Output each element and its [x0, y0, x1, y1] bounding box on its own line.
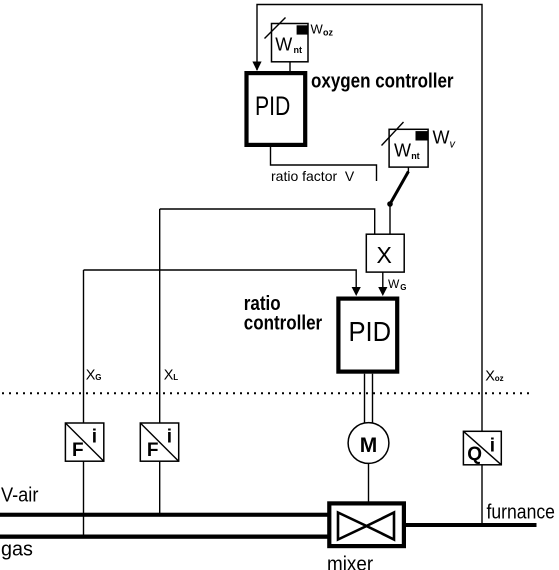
label Woz	[311, 22, 334, 38]
wire: left vertical XG line down to gas pipe	[83, 270, 85, 538]
svg-text:i: i	[490, 435, 495, 456]
wire: switch to multiplier X	[389, 204, 391, 234]
mixer valve body	[329, 503, 404, 546]
svg-text:i: i	[167, 427, 172, 448]
svg-text:W: W	[275, 35, 292, 55]
svg-text:nt: nt	[294, 45, 303, 55]
analyzer transmitter Q (oxygen)	[463, 431, 501, 465]
multiplier X	[366, 234, 404, 272]
svg-text:mixer: mixer	[327, 553, 374, 570]
setpoint station W1 (Wnt with Woz)	[265, 18, 309, 62]
svg-text:oz: oz	[495, 374, 504, 383]
label XG	[86, 367, 102, 383]
svg-text:W: W	[394, 141, 411, 161]
wire: PID2 to motor double line left	[364, 374, 366, 423]
wire: XL measurement to multiplier X	[160, 209, 375, 234]
svg-text:X: X	[377, 242, 392, 268]
setpoint station W2 (Wnt with Wv)	[382, 122, 429, 167]
wire: W1 setpoint box to PID1	[289, 62, 291, 71]
wire: motor to mixer valve	[368, 464, 370, 504]
label Wv	[433, 128, 457, 151]
svg-text:ratio factor V: ratio factor V	[271, 168, 355, 184]
svg-text:nt: nt	[411, 151, 420, 161]
svg-text:oxygen controller: oxygen controller	[311, 69, 454, 92]
pipe: gas supply	[0, 535, 328, 539]
svg-text:PID: PID	[349, 316, 392, 347]
wire: PID1 output ratio factor line	[271, 147, 377, 181]
label Xoz	[485, 368, 503, 384]
svg-text:i: i	[92, 427, 97, 448]
svg-text:W: W	[311, 22, 324, 37]
svg-text:controller: controller	[244, 311, 322, 334]
wire: PID2 to motor double line right	[372, 374, 374, 423]
flow transmitter F2 (air)	[140, 423, 178, 461]
wire: top feedback line from oxygen analyzer up and across to PID1 setpoint input	[257, 5, 482, 528]
svg-text:v: v	[450, 139, 457, 151]
svg-text:furnance: furnance	[487, 500, 555, 522]
label ratio controller	[244, 292, 322, 334]
pipe: mixture to furnace	[404, 523, 537, 527]
svg-text:X: X	[164, 367, 174, 383]
svg-text:M: M	[360, 434, 378, 457]
label WG	[388, 277, 406, 292]
arrowhead into PID2 top left	[352, 287, 361, 296]
op: oxygen controller PID1	[247, 73, 306, 145]
arrowhead WG into PID2 top	[378, 287, 387, 296]
wire: X output WG to PID2	[382, 272, 384, 288]
dotted boundary line	[2, 392, 531, 394]
svg-text:Q: Q	[467, 444, 482, 465]
flow transmitter F1 (gas)	[65, 423, 103, 461]
motor M	[348, 423, 389, 464]
switch pivot dot	[387, 201, 393, 207]
svg-text:F: F	[72, 440, 84, 461]
switch lever (selector between ratio factor and Wv)	[390, 172, 408, 205]
svg-text:G: G	[95, 373, 101, 382]
svg-text:W: W	[433, 128, 450, 148]
wire: vertical XL line down to air pipe	[159, 209, 161, 516]
svg-text:G: G	[400, 283, 406, 292]
svg-text:V-air: V-air	[1, 485, 39, 507]
svg-text:L: L	[173, 373, 178, 382]
svg-text:F: F	[147, 440, 159, 461]
svg-text:oz: oz	[323, 28, 333, 38]
svg-text:W: W	[388, 277, 400, 291]
op: ratio controller PID2	[338, 299, 397, 372]
svg-text:X: X	[86, 367, 96, 383]
svg-text:PID: PID	[255, 92, 290, 122]
arrowhead into PID1 top	[252, 62, 261, 72]
label XL	[164, 367, 179, 383]
svg-text:X: X	[485, 368, 495, 384]
wire: XG measurement across to PID2	[84, 270, 357, 289]
svg-text:gas: gas	[1, 538, 33, 560]
pipe: V-air supply	[0, 513, 328, 517]
wire: W2 stem	[407, 167, 409, 173]
